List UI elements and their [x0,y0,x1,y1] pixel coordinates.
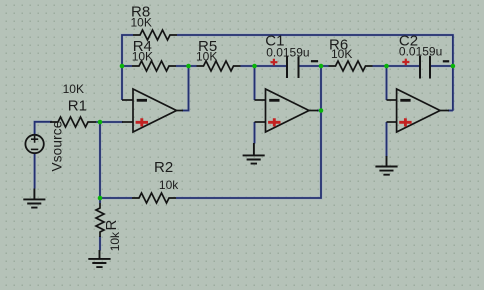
node C2 left [384,64,389,69]
voltage source V1 circle [25,135,43,153]
U3 plus pin stub [387,121,397,123]
U2 minus symbol [269,99,279,102]
C1 plus mark [271,59,278,66]
svg-text:10K: 10K [196,49,217,63]
C2 plus mark [402,59,409,66]
wire R2 right up to U2 output [176,66,321,198]
U3 plus symbol [399,118,411,126]
wire vsource bottom to ground [34,153,36,188]
wire U2 minus vertical [254,66,256,100]
wire top rail R8 to right vertical [177,35,453,111]
resistor R1 [50,117,96,127]
resistor R4 [132,61,176,71]
resistor R2 [132,193,176,203]
C1 minus mark [311,60,318,62]
U3 minus symbol [400,99,410,102]
wire left vertical / top rail left [122,35,133,100]
node R2 left [98,196,103,201]
ground (U3) [375,156,397,175]
U1 plus pin stub [122,121,133,123]
wire R5 to C1 left plate [241,65,287,67]
resistor R5 [197,61,241,71]
wire U3 output stub [448,110,453,112]
node C1 right [319,64,324,69]
C2 minus mark [443,60,449,62]
wire U3 plus down to ground [386,122,388,157]
wire R bottom to ground [99,236,101,251]
resistor R6 [329,61,373,71]
node R4 left [120,64,125,69]
U1 plus symbol [136,118,148,126]
wire U1 output up to rail [182,66,189,111]
ground (resistor R) [88,250,110,267]
vsource minus sign [31,148,38,150]
wire rail segment [122,65,132,67]
blue wires [35,35,453,251]
node C2 right [451,64,456,69]
U2 plus symbol [268,118,280,126]
capacitor C1 plates [287,57,299,79]
wire C2 right plate to rail corner [431,65,453,67]
svg-text:10K: 10K [63,82,84,96]
wire node A down to resistor R [99,122,101,203]
U2 output stub [309,110,318,112]
wire C1 right plate to R6 [300,65,329,67]
ground (vsource) [23,189,45,208]
op-amp U2 [255,89,319,132]
U1 minus pin stub [122,99,133,101]
U1 minus symbol [137,99,147,102]
svg-text:R1: R1 [68,98,87,115]
op-amp U1 [122,89,183,132]
ground (U2) [243,143,265,164]
svg-text:10K: 10K [131,16,152,30]
svg-text:10K: 10K [331,47,352,61]
node U1 plus [98,120,103,125]
wire U2 output stub [317,110,321,112]
wire U2 plus down to ground [254,122,256,144]
U2 minus pin stub [255,99,266,101]
svg-text:R: R [103,220,120,231]
wire node to R2 [100,197,132,199]
U2 plus pin stub [255,121,266,123]
node U2 output [319,108,324,113]
U1 output stub [177,110,184,112]
svg-text:Vsource: Vsource [50,121,65,172]
U3 output stub [440,110,449,112]
vsource plus sign [31,136,38,150]
op-amp U3 [387,89,450,132]
node C1 left [252,64,257,69]
svg-text:R2: R2 [154,159,173,176]
svg-text:0.0159u: 0.0159u [266,45,309,59]
U3 minus pin stub [387,99,397,101]
svg-text:0.0159u: 0.0159u [399,45,442,59]
svg-text:10k: 10k [108,231,122,251]
wire R6 to C2 left plate [373,65,420,67]
wire R1 right to op-amp U1 plus [96,121,123,123]
black component strokes [50,30,373,237]
node junction dots [98,64,456,201]
resistor R (vertical) [96,203,104,237]
resistor R8 [133,30,177,40]
wire rail R4 to R5 [176,65,197,67]
wire vsource top to R1 [35,122,52,135]
node R5 left [186,64,191,69]
svg-text:10k: 10k [159,178,179,192]
capacitor C2 plates [420,56,430,79]
wire U3 minus vertical [386,66,388,100]
svg-text:10K: 10K [132,49,153,63]
